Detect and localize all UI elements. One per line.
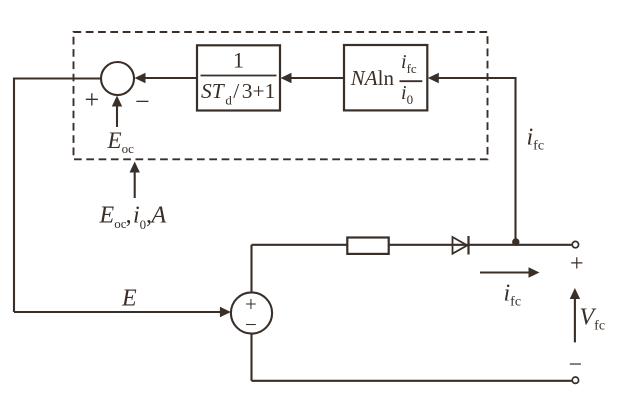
svg-text:−: − xyxy=(245,313,257,337)
wire: ifc feedback horizontal into NA block xyxy=(436,77,516,79)
arrow into block U1 from right xyxy=(281,73,292,83)
label Eoc, i0, A xyxy=(99,203,167,233)
arrow into summing junction from right xyxy=(135,73,146,83)
wire: ifc feedback vertical xyxy=(514,77,516,245)
fraction bar of U2 xyxy=(400,80,423,82)
dashed box (fuel cell model boundary) xyxy=(74,32,488,159)
arrow Eoc into summing junction xyxy=(116,104,118,127)
svg-text:ifc: ifc xyxy=(504,281,522,310)
resistor R1 xyxy=(347,238,388,254)
source E (controlled voltage source) xyxy=(231,292,272,333)
svg-text:−: − xyxy=(569,352,583,378)
wire: bottom return rail xyxy=(252,380,572,382)
svg-text:+: + xyxy=(85,85,100,114)
terminal + (output) xyxy=(572,241,578,247)
svg-text:3+1: 3+1 xyxy=(242,79,276,103)
block U1: 1/(STd/3+1) xyxy=(197,45,280,110)
junction node (ifc tap) xyxy=(512,238,519,245)
wire: summing junction to left edge xyxy=(15,77,101,79)
arrow ifc (output current) xyxy=(480,271,531,273)
arrow into NA block from right xyxy=(428,73,439,83)
arrow Vfc (output voltage) xyxy=(574,296,576,342)
svg-text:,: , xyxy=(126,203,132,229)
svg-text:+: + xyxy=(570,251,584,277)
wire: top output rail xyxy=(252,244,572,246)
diode D1 xyxy=(453,237,468,254)
svg-text:NAln: NAln xyxy=(350,66,395,90)
fraction bar of U1 xyxy=(201,75,277,77)
svg-text:ST: ST xyxy=(201,79,226,103)
arrow: parameters Eoc,i0,A into model xyxy=(134,170,136,198)
svg-text:Eoc: Eoc xyxy=(107,128,135,156)
svg-text:E: E xyxy=(99,203,115,229)
wire: left vertical feedback xyxy=(13,78,15,313)
svg-text:Vfc: Vfc xyxy=(580,305,606,334)
svg-text:/: / xyxy=(233,79,239,103)
wire: block 1/(STd/3+1) to summing junction xyxy=(143,77,197,79)
svg-text:d: d xyxy=(225,93,232,108)
svg-text:A: A xyxy=(150,203,167,229)
summing junction S1 xyxy=(101,62,134,95)
svg-text:ifc: ifc xyxy=(527,125,545,154)
value label STd/3+1 (denominator of U1) xyxy=(201,79,275,108)
wire: bottom horizontal to source E xyxy=(14,311,222,313)
svg-text:1: 1 xyxy=(233,48,244,73)
svg-text:E: E xyxy=(121,286,137,312)
block U2: NA ln(ifc/i0) xyxy=(344,45,427,110)
svg-text:−: − xyxy=(135,87,150,116)
wire: NA block to block U1 xyxy=(289,77,345,79)
wire: source E top to output rail xyxy=(250,245,252,293)
arrow into source E xyxy=(220,307,231,317)
terminal − (output) xyxy=(572,377,578,383)
wire: source E bottom to return rail xyxy=(250,334,252,381)
